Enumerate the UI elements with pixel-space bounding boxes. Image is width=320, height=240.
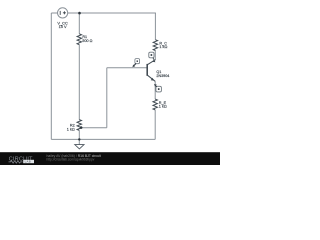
wire left rail <box>50 13 52 139</box>
resistor R1 <box>77 34 81 45</box>
probe base <box>132 59 139 68</box>
node junction ground <box>78 138 80 140</box>
wire divider branch VCC to R1 <box>78 13 80 34</box>
svg-text:2N3904: 2N3904 <box>156 74 169 78</box>
svg-text:15 V: 15 V <box>59 24 67 29</box>
wire top from source to collector branch <box>68 12 156 14</box>
ground <box>75 145 84 149</box>
resistor R2 <box>77 120 81 131</box>
probe emitter <box>154 84 161 92</box>
wire base tap vertical <box>106 68 108 128</box>
wire right branch down to R_C <box>154 13 156 40</box>
node junction top divider <box>78 12 81 15</box>
resistor R_E <box>153 99 157 110</box>
wire bottom rail <box>51 138 155 140</box>
node junction R2 base tap <box>80 126 83 129</box>
svg-text:1 kΩ: 1 kΩ <box>159 45 167 49</box>
svg-text:http://circuitlab.com/cqwk9b3h: http://circuitlab.com/cqwk9b3hppv <box>47 158 95 162</box>
watermark bar <box>0 152 220 165</box>
wire top-left from source to left rail <box>51 12 57 14</box>
svg-text:1 kΩ: 1 kΩ <box>67 127 75 131</box>
wire R_E bottom to bottom rail <box>154 110 156 139</box>
svg-text:1 kΩ: 1 kΩ <box>159 105 167 109</box>
CircuitLab logo <box>9 156 35 163</box>
svg-text:LAB: LAB <box>25 160 31 164</box>
wire R2 bottom to ground <box>78 130 80 144</box>
probe collector <box>149 52 156 62</box>
transistor Q1 <box>147 60 155 82</box>
voltage source V_CC <box>58 8 68 18</box>
wire base horizontal to Q1 <box>107 67 147 69</box>
wire base tap horizontal lower <box>80 127 107 129</box>
wire collector stub below R_C <box>154 51 156 60</box>
resistor R_C <box>153 40 157 51</box>
wire between R1 and R2 <box>78 45 80 120</box>
svg-text:500 Ω: 500 Ω <box>82 39 92 43</box>
wire emitter stub to R_E <box>154 81 156 99</box>
